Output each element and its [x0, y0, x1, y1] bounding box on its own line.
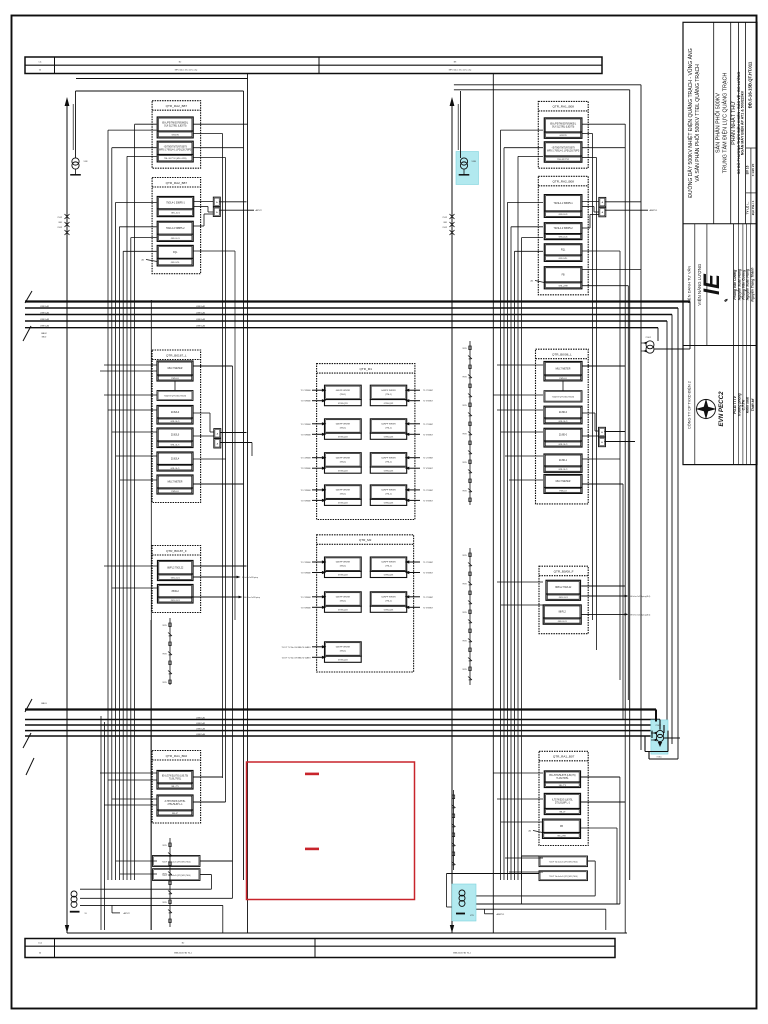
svg-text:64/KPF WR/3R: 64/KPF WR/3R	[336, 490, 351, 492]
svg-text:MULT METER: MULT METER	[168, 482, 183, 484]
svg-text:V5/B: V5/B	[472, 161, 477, 163]
svg-text:67/98-Q2/3: 67/98-Q2/3	[338, 503, 347, 505]
svg-text:21/8D-1: 21/8D-1	[559, 460, 568, 462]
svg-text:(TM-1): (TM-1)	[340, 427, 347, 429]
svg-text:TBL-32/7*92 (M5L-2/83): TBL-32/7*92 (M5L-2/83)	[164, 158, 187, 160]
svg-text:9F5W: 9F5W	[162, 902, 167, 904]
svg-text:ĐƯỜNG DÂY 500KV NHIỆT ĐIỆN QUẢ: ĐƯỜNG DÂY 500KV NHIỆT ĐIỆN QUẢNG TRẠCH -…	[686, 48, 694, 197]
svg-text:LINE1-A1: LINE1-A1	[196, 305, 206, 308]
svg-text:GRL-2/9E: GRL-2/9E	[558, 285, 568, 287]
svg-text:(TM-1): (TM-1)	[385, 566, 392, 568]
svg-text:CÔNG TY CP TVXD ĐIỆN 2: CÔNG TY CP TVXD ĐIỆN 2	[686, 381, 691, 429]
svg-text:9F5W: 9F5W	[162, 845, 167, 847]
svg-text:BB01: BB01	[41, 703, 47, 705]
svg-text:(TM-1): (TM-1)	[340, 650, 347, 652]
svg-text:GRL-5L/1: GRL-5L/1	[171, 213, 181, 215]
svg-text:79/2L4-2 50BP5-2: 79/2L4-2 50BP5-2	[166, 228, 185, 230]
svg-text:GRL-5L/1: GRL-5L/1	[558, 444, 568, 446]
svg-text:T2 VT/8808: T2 VT/8808	[301, 434, 311, 436]
svg-text:T2 CT/8807: T2 CT/8807	[423, 424, 433, 426]
svg-text:GRL-5/1L: GRL-5/1L	[171, 262, 181, 264]
svg-text:T2 CT/8807: T2 CT/8807	[423, 390, 433, 392]
svg-text:TL/8L/79/5L: TL/8L/79/5L	[169, 778, 182, 780]
svg-text:TRUNG TÂM ĐIỆN LỰC QUẢNG TRẠCH: TRUNG TÂM ĐIỆN LỰC QUẢNG TRẠCH	[720, 73, 728, 174]
svg-text:T2 VT/8807: T2 VT/8807	[423, 468, 433, 470]
svg-text:-/5/79/5/79/75/97/3079: -/5/79/5/79/75/97/3079	[164, 146, 188, 148]
svg-text:PG.Đ.TTTV: PG.Đ.TTTV	[733, 395, 737, 413]
svg-text:67/98-Q2/3: 67/98-Q2/3	[384, 403, 393, 405]
svg-text:67/98-Q2/3: 67/98-Q2/3	[384, 436, 393, 438]
svg-text:(TM-1): (TM-1)	[385, 427, 392, 429]
svg-text:T2 CT/8807: T2 CT/8807	[423, 562, 433, 564]
svg-text:MP5-1 79/5L4-1 LP5/L28,79/P5: MP5-1 79/5L4-1 LP5/L28,79/P5	[159, 149, 192, 151]
svg-text:TR/4L4-1 50BP5-1: TR/4L4-1 50BP5-1	[554, 203, 574, 205]
svg-text:SÂN PHÂN PHỐI 500KV: SÂN PHÂN PHỐI 500KV	[714, 93, 721, 153]
svg-text:T2 VT/8808: T2 VT/8808	[301, 607, 311, 609]
svg-text:88/FL2 79/2L22: 88/FL2 79/2L22	[167, 567, 184, 569]
svg-text:MF5 ttde-1 53u rd.hu chp: MF5 ttde-1 53u rd.hu chp	[175, 69, 198, 72]
svg-text:GRL-5L/1: GRL-5L/1	[559, 237, 569, 239]
svg-text:21/82L0: 21/82L0	[171, 412, 180, 414]
svg-text:Phùng Văn Cường: Phùng Văn Cường	[733, 269, 737, 300]
svg-text:P5/W: P5/W	[58, 217, 63, 219]
svg-text:LINE1-A4: LINE1-A4	[196, 325, 206, 328]
svg-text:64/KPF WR/3R: 64/KPF WR/3R	[381, 596, 396, 598]
svg-text:/ T.B02: / T.B02	[655, 725, 661, 727]
svg-text:275L/5L8P L-1: 275L/5L8P L-1	[555, 802, 571, 804]
svg-text:BB02: BB02	[42, 336, 46, 338]
svg-text:LINE1-A3: LINE1-A3	[40, 318, 50, 321]
svg-text:85-L/57K/5L87/5 (L80,79): 85-L/57K/5L87/5 (L80,79)	[549, 775, 575, 777]
svg-text:TBL-32/7*92: TBL-32/7*92	[557, 159, 570, 161]
svg-text:NH trhm 5v53 bptcp: NH trhm 5v53 bptcp	[244, 596, 260, 599]
svg-text:GRL-5L/1: GRL-5L/1	[171, 577, 181, 579]
svg-text:QTR_B0187_F: QTR_B0187_F	[166, 549, 187, 553]
svg-text:9F5W: 9F5W	[462, 462, 467, 464]
svg-text:PM5-L8: PM5-L8	[559, 378, 567, 380]
svg-text:9F5W: 9F5W	[462, 641, 467, 643]
svg-text:QTR_RA2_B87: QTR_RA2_B87	[166, 181, 188, 185]
svg-text:88/FL2: 88/FL2	[559, 611, 567, 613]
svg-text:LINE1-A3: LINE1-A3	[196, 318, 206, 321]
svg-text:67/98-Q2/3: 67/98-Q2/3	[384, 470, 393, 472]
svg-text:64/KPF WR/3R: 64/KPF WR/3R	[336, 596, 351, 598]
svg-text:Kiểm soát: Kiểm soát	[746, 396, 750, 413]
svg-text:PM5-L8: PM5-L8	[171, 491, 179, 493]
svg-text:64/KPF WR/3R: 64/KPF WR/3R	[381, 390, 396, 392]
svg-text:9F5W: 9F5W	[462, 669, 467, 671]
svg-text:PM5-L8: PM5-L8	[559, 490, 567, 492]
svg-text:85-L/P5/TM/5079/5/805/L: 85-L/P5/TM/5079/5/805/L	[162, 123, 189, 125]
svg-text:A/BPV1: A/BPV1	[650, 209, 658, 212]
svg-text:9F5W: 9F5W	[462, 377, 467, 379]
svg-text:MBA 500kV AT 90-1: MBA 500kV AT 90-1	[174, 951, 193, 954]
svg-text:QTR_B0/08_F: QTR_B0/08_F	[554, 570, 574, 574]
svg-text:LINE1-A1: LINE1-A1	[40, 305, 50, 308]
svg-text:BB5: BB5	[59, 222, 62, 224]
svg-text:T24 VT Tab 4x4 a/5 QTR_NR1 (TM: T24 VT Tab 4x4 a/5 QTR_NR1 (TM-4)	[162, 875, 191, 877]
svg-text:67/98-Q2/3: 67/98-Q2/3	[338, 659, 347, 661]
svg-text:/ T.B0x: / T.B0x	[656, 757, 661, 759]
svg-text:9F5W: 9F5W	[462, 348, 467, 350]
svg-text:67/98-Q2/3: 67/98-Q2/3	[338, 436, 347, 438]
svg-text:T2 VT/8807: T2 VT/8807	[423, 401, 433, 403]
svg-text:LINE2-A2: LINE2-A2	[196, 722, 206, 725]
svg-text:GR2/76: GR2/76	[172, 134, 180, 136]
svg-text:98L-7*5: 98L-7*5	[559, 785, 567, 787]
svg-text:NGĂN MÁY BIẾN ÁP AT1 & 500/220: NGĂN MÁY BIẾN ÁP AT1 & 500/220kV	[739, 90, 744, 155]
svg-text:T24 VT Tab 4x4 a/5 QTR_NR1 (TM: T24 VT Tab 4x4 a/5 QTR_NR1 (TM-4)	[549, 862, 578, 864]
svg-text:LINE2-A3: LINE2-A3	[196, 727, 206, 730]
svg-text:T2 CT/8807: T2 CT/8807	[423, 458, 433, 460]
svg-text:LINE1-A4: LINE1-A4	[40, 325, 50, 328]
svg-text:67/98-Q2/3: 67/98-Q2/3	[338, 470, 347, 472]
svg-text:T2 VT/8808: T2 VT/8808	[301, 468, 311, 470]
svg-text:(TM-1): (TM-1)	[340, 394, 347, 396]
svg-text:MULT METER: MULT METER	[168, 368, 183, 370]
svg-text:mak: mak	[38, 943, 42, 945]
svg-text:275L/5L8P L-1: 275L/5L8P L-1	[167, 804, 183, 806]
svg-text:P6/W: P6/W	[443, 227, 448, 229]
svg-text:T2 VT/8807: T2 VT/8807	[423, 434, 433, 436]
svg-text:NH trhm 5v53 bptcp(4h1): NH trhm 5v53 bptcp(4h1)	[630, 613, 651, 616]
svg-text:GRL-5L/1: GRL-5L/1	[170, 468, 180, 470]
svg-text:GUI 5L27/BL (L82/79): GUI 5L27/BL (L82/79)	[164, 126, 187, 128]
svg-text:VÀ SÂN PHÂN PHỐI 500KV TTĐL QU: VÀ SÂN PHÂN PHỐI 500KV TTĐL QUẢNG TRẠCH	[694, 64, 701, 182]
svg-text:/L757K/52/5 (L87/5L: /L757K/52/5 (L87/5L	[552, 799, 574, 801]
svg-text:T2 CT/8808: T2 CT/8808	[301, 597, 311, 599]
svg-text:T2 VT/8808: T2 VT/8808	[301, 401, 311, 403]
svg-text:T24&T59 QTR_M2 (TM-1E): T24&T59 QTR_M2 (TM-1E)	[164, 396, 187, 398]
svg-text:GRL-5L/1: GRL-5L/1	[170, 421, 180, 423]
svg-text:QTR_RA2_B87: QTR_RA2_B87	[166, 104, 188, 108]
svg-text:BB02: BB02	[41, 333, 47, 335]
svg-text:/L757K/52/5 (L87/5L: /L757K/52/5 (L87/5L	[165, 801, 187, 803]
svg-text:FB: FB	[560, 826, 563, 828]
svg-text:T24 CT TU Tab CHI NBA TU GIANG: T24 CT TU Tab CHI NBA TU GIANG	[281, 646, 311, 649]
svg-text:GRL-5L/1: GRL-5L/1	[171, 600, 181, 602]
svg-text:PM5-L8: PM5-L8	[171, 378, 179, 380]
svg-text:LINE1-A2: LINE1-A2	[196, 311, 206, 314]
svg-text:FB: FB	[562, 274, 565, 276]
svg-text:PHẦN NHẤT THỨ: PHẦN NHẤT THỨ	[730, 101, 737, 145]
svg-text:0 1/20 20: 0 1/20 20	[751, 163, 755, 176]
svg-text:P6/W: P6/W	[58, 227, 63, 229]
svg-text:✎: ✎	[724, 298, 730, 302]
svg-text:GRL-5L/1: GRL-5L/1	[558, 621, 568, 623]
svg-text:EVN PECC2: EVN PECC2	[718, 391, 725, 427]
svg-text:9F5W: 9F5W	[162, 654, 167, 656]
svg-text:(TM-1): (TM-1)	[340, 494, 347, 496]
svg-text:9F5W: 9F5W	[162, 625, 167, 627]
svg-text:21/82L0: 21/82L0	[171, 435, 180, 437]
svg-text:21/82L4: 21/82L4	[171, 458, 180, 460]
svg-text:T2 VT/8808: T2 VT/8808	[301, 500, 311, 502]
svg-text:64/KPF WR/3R: 64/KPF WR/3R	[336, 457, 351, 459]
svg-text:LINE2-A4: LINE2-A4	[196, 733, 206, 736]
svg-text:QTR_B0187_L: QTR_B0187_L	[166, 353, 187, 357]
svg-text:64/KPF WR/3R: 64/KPF WR/3R	[336, 646, 351, 648]
svg-text:67/98-Q2/3: 67/98-Q2/3	[338, 609, 347, 611]
svg-text:79/2L4-1 50BP5-1: 79/2L4-1 50BP5-1	[166, 203, 185, 205]
svg-text:T2 CT/8808: T2 CT/8808	[301, 562, 311, 564]
svg-text:Thiết kế: Thiết kế	[751, 397, 755, 411]
svg-text:GR2/76: GR2/76	[560, 135, 568, 137]
svg-text:ĐĐ.5-16-15Đ.QT.HT.011: ĐĐ.5-16-15Đ.QT.HT.011	[747, 61, 752, 108]
svg-text:T2 CT/8808: T2 CT/8808	[301, 390, 311, 392]
svg-text:T2 CT/8808: T2 CT/8808	[301, 458, 311, 460]
svg-text:MULT METER: MULT METER	[556, 481, 571, 483]
svg-text:64/KPF WR/3R: 64/KPF WR/3R	[381, 562, 396, 564]
svg-text:A/PV2: A/PV2	[256, 209, 263, 212]
svg-text:QTR_B0/08_L: QTR_B0/08_L	[552, 353, 572, 357]
svg-text:T2 CT/8807: T2 CT/8807	[423, 597, 433, 599]
svg-text:LIÊN DANH TƯ VẤN: LIÊN DANH TƯ VẤN	[686, 266, 691, 304]
svg-text:98L-2/98: 98L-2/98	[557, 835, 566, 837]
svg-text:MULT METER: MULT METER	[556, 368, 571, 370]
svg-text:85-L/57K/5L87/5 (L80,79): 85-L/57K/5L87/5 (L80,79)	[162, 775, 188, 777]
svg-text:88/FL2: 88/FL2	[172, 591, 180, 593]
svg-text:T2 CT/8808: T2 CT/8808	[301, 490, 311, 492]
svg-text:GUI 5L27/BL (L82/79): GUI 5L27/BL (L82/79)	[552, 126, 575, 128]
svg-text:TỶ LỆ /...: TỶ LỆ /...	[744, 202, 749, 215]
svg-text:64/KPF WR/3R: 64/KPF WR/3R	[336, 390, 351, 392]
svg-text:GRL-5L/1: GRL-5L/1	[170, 444, 180, 446]
svg-text:(TM-1): (TM-1)	[385, 394, 392, 396]
svg-text:Đợt PH./ 1: Đợt PH./ 1	[751, 200, 755, 215]
svg-text:(TM-1): (TM-1)	[385, 461, 392, 463]
svg-text:64/KPF WR/3R: 64/KPF WR/3R	[381, 423, 396, 425]
svg-text:21/8D-0: 21/8D-0	[559, 412, 568, 414]
svg-text:GRL-5L/1: GRL-5L/1	[559, 214, 569, 216]
svg-text:T24 VT TU Tab CHI NBA TU GIANG: T24 VT TU Tab CHI NBA TU GIANG	[282, 656, 312, 659]
svg-text:T2 CT/8808: T2 CT/8808	[301, 424, 311, 426]
svg-text:(TM-1): (TM-1)	[385, 600, 392, 602]
svg-text:GRL-5L/1: GRL-5L/1	[559, 597, 569, 599]
svg-text:64/KPF WR/3R: 64/KPF WR/3R	[381, 457, 396, 459]
svg-text:98L-7*5: 98L-7*5	[171, 786, 179, 788]
svg-text:A/PV2: A/PV2	[124, 912, 131, 915]
svg-text:T2 CT/8807: T2 CT/8807	[423, 490, 433, 492]
svg-text:T2 VT/8807: T2 VT/8807	[423, 607, 433, 609]
svg-text:QTR_M1: QTR_M1	[359, 367, 372, 371]
svg-text:IE: IE	[699, 273, 724, 295]
svg-text:GRL-5L/1: GRL-5L/1	[558, 469, 568, 471]
svg-text:MBA 500kV AT 90-1: MBA 500kV AT 90-1	[453, 951, 472, 954]
svg-text:T24&T59 QTR_M2 (TM-1E): T24&T59 QTR_M2 (TM-1E)	[552, 396, 575, 398]
svg-text:64/KPF WR/3R: 64/KPF WR/3R	[336, 423, 351, 425]
svg-text:MF5 ttde-1 53u rd.hu chp: MF5 ttde-1 53u rd.hu chp	[449, 69, 472, 72]
svg-text:QTR_RA1_B02: QTR_RA1_B02	[166, 754, 188, 758]
svg-text:9F5W: 9F5W	[162, 682, 167, 684]
svg-text:67/98-Q2/3: 67/98-Q2/3	[384, 503, 393, 505]
svg-text:BB5: BB5	[444, 222, 447, 224]
svg-text:/ T.B02: / T.B02	[645, 337, 651, 339]
svg-text:85-L/P5/TM/5079/5/805/L: 85-L/P5/TM/5079/5/805/L	[550, 123, 577, 125]
svg-text:T2 VT/8807: T2 VT/8807	[423, 573, 433, 575]
svg-text:67/98-Q2/3: 67/98-Q2/3	[338, 403, 347, 405]
svg-text:QTR_RA1_B08: QTR_RA1_B08	[553, 105, 575, 109]
svg-text:9F5W: 9F5W	[462, 491, 467, 493]
svg-text:Nguyễn Trọng Thành: Nguyễn Trọng Thành	[750, 268, 755, 302]
svg-text:BV 16: BV 16	[745, 165, 749, 174]
svg-text:T2 VT/8808: T2 VT/8808	[301, 573, 311, 575]
svg-text:QTR_RA1_B07: QTR_RA1_B07	[553, 755, 575, 759]
svg-text:tuk: tuk	[39, 60, 42, 63]
svg-text:98L-8*: 98L-8*	[172, 813, 178, 815]
svg-text:FQL: FQL	[173, 252, 178, 254]
svg-text:(TM-1): (TM-1)	[340, 600, 347, 602]
svg-text:QTR_M2: QTR_M2	[359, 538, 372, 542]
svg-text:LINE1-A2: LINE1-A2	[40, 311, 50, 314]
svg-text:9F5W: 9F5W	[462, 584, 467, 586]
svg-text:TL/8L/79/5L: TL/8L/79/5L	[556, 778, 569, 780]
svg-text:9F5W: 9F5W	[462, 612, 467, 614]
svg-text:GRL-5L/1: GRL-5L/1	[171, 238, 181, 240]
svg-text:MP5-1 79/5L4-1 LP5/L28,79/P5: MP5-1 79/5L4-1 LP5/L28,79/P5	[547, 150, 580, 152]
svg-text:67/98-Q2/3: 67/98-Q2/3	[384, 609, 393, 611]
svg-text:21/8D-0: 21/8D-0	[559, 435, 568, 437]
svg-text:A/BPV1: A/BPV1	[497, 913, 505, 916]
svg-text:QTR_RA2_B08: QTR_RA2_B08	[553, 180, 575, 184]
svg-text:V5: V5	[85, 913, 87, 915]
svg-text:P5/W: P5/W	[443, 217, 448, 219]
svg-text:GRL-5L/1: GRL-5L/1	[558, 421, 568, 423]
svg-text:-/5/79/5/79/75/97/3079: -/5/79/5/79/75/97/3079	[552, 147, 576, 149]
svg-text:NH trhm 5v53 bptcp(4h1): NH trhm 5v53 bptcp(4h1)	[630, 595, 651, 598]
svg-text:NH trhm 5v53 bptcp: NH trhm 5v53 bptcp	[242, 576, 258, 579]
svg-text:67/98-Q2/3: 67/98-Q2/3	[384, 575, 393, 577]
svg-text:GRL-5/1L: GRL-5/1L	[559, 258, 569, 260]
svg-text:88/FL2 79/2L22: 88/FL2 79/2L22	[555, 587, 572, 589]
svg-text:64/KPF WR/3R: 64/KPF WR/3R	[381, 490, 396, 492]
svg-text:(TM-1): (TM-1)	[340, 461, 347, 463]
svg-text:Nguyễn Xuân Hùng: Nguyễn Xuân Hùng	[745, 268, 750, 300]
svg-text:9F5W: 9F5W	[462, 434, 467, 436]
svg-text:98L-8*: 98L-8*	[559, 812, 565, 814]
svg-text:FQL: FQL	[561, 249, 566, 251]
svg-text:64/KPF WR/3R: 64/KPF WR/3R	[336, 562, 351, 564]
svg-text:(TM-1): (TM-1)	[340, 566, 347, 568]
svg-text:T24 VT Tab 4x4 a/5 QTR_NR1 (TM: T24 VT Tab 4x4 a/5 QTR_NR1 (TM-4)	[162, 861, 191, 863]
svg-text:TR/4L4-2 50BP5-2: TR/4L4-2 50BP5-2	[554, 228, 574, 230]
svg-text:T24 VT Tab 4x4 a/5 QTR_NR1 (TM: T24 VT Tab 4x4 a/5 QTR_NR1 (TM-4)	[549, 876, 578, 878]
svg-text:T2 VT/8807: T2 VT/8807	[423, 500, 433, 502]
svg-text:(TM-1): (TM-1)	[385, 494, 392, 496]
svg-text:9F5W: 9F5W	[462, 555, 467, 557]
svg-text:67/98-Q2/3: 67/98-Q2/3	[338, 575, 347, 577]
svg-text:9F5W: 9F5W	[462, 405, 467, 407]
svg-text:LINE2-A1: LINE2-A1	[196, 716, 206, 719]
